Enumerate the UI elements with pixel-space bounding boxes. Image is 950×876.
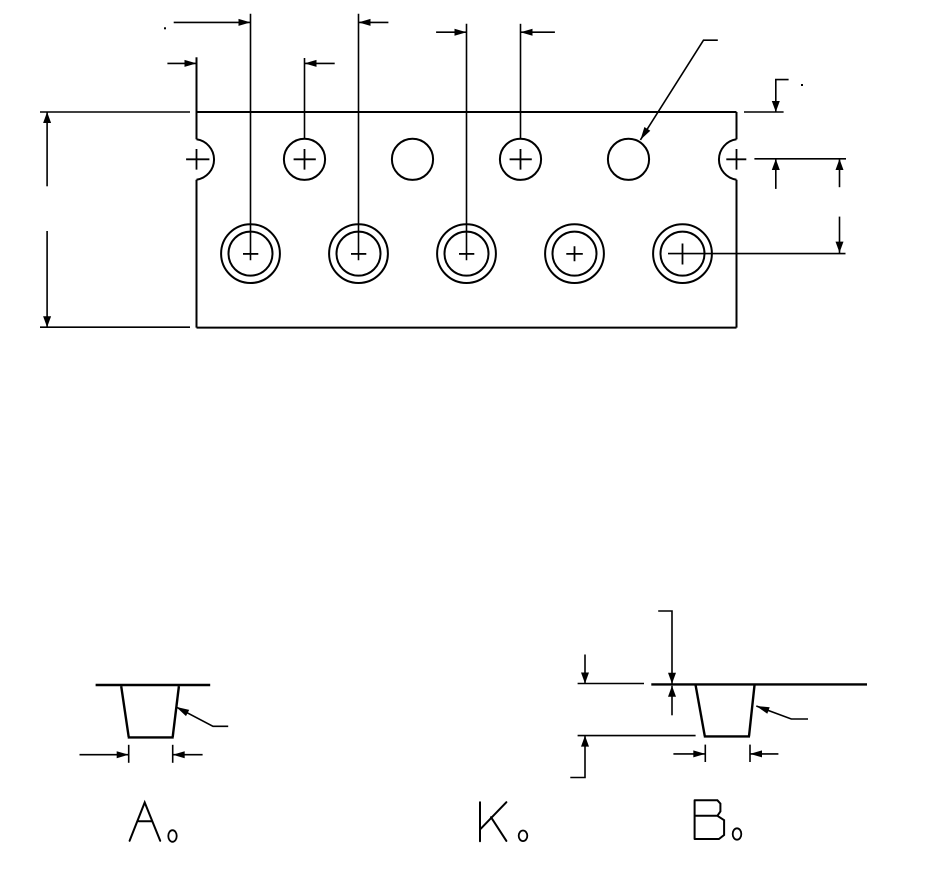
detail B surface extension left <box>578 683 644 685</box>
plate right edge upper <box>736 112 738 139</box>
hole Q2 inner circle <box>337 232 381 276</box>
detail B width dim left line <box>673 753 705 755</box>
detail B width extension right <box>749 745 751 762</box>
dimension Q1-Q2 pitch right line <box>359 21 389 23</box>
detail B depth dim upper line <box>584 655 586 684</box>
label A degree circle <box>168 830 176 842</box>
extension line hole P4 <box>520 24 522 139</box>
arrowhead leader P5 <box>640 127 650 140</box>
hole Q5 outer circle <box>653 224 712 283</box>
extension line plate top right <box>744 111 784 113</box>
dimension row1-to-row2 lower line <box>839 217 841 254</box>
arrowhead dim Q3-P4 right <box>521 29 533 36</box>
detail A width extension left <box>128 745 130 763</box>
extension line row1 centerline right <box>754 158 846 160</box>
dimension P1-P2 pitch right line <box>305 62 335 64</box>
detail B surface line <box>651 683 867 685</box>
arrowhead dim P1-P2 left <box>185 60 197 67</box>
arrowhead detail B leader <box>756 706 769 714</box>
detail A leader line <box>176 707 228 726</box>
extension line hole Q3 <box>466 24 468 260</box>
crosshair hole P4 <box>510 149 532 170</box>
hole P2 circle <box>284 139 325 180</box>
dimension plate height upper line <box>46 112 48 186</box>
detail A surface line <box>96 684 211 686</box>
label letter A <box>130 803 161 841</box>
label B degree circle <box>733 828 742 839</box>
dimension Q1-Q2 pitch left line <box>174 21 251 23</box>
arrowhead detail A width left <box>117 751 129 758</box>
extension line row2 centerline right <box>668 253 846 255</box>
hole Q1 outer circle <box>221 224 280 283</box>
arrowhead dim P1-P2 right <box>305 60 317 67</box>
detail B K dim upper hook <box>658 611 672 684</box>
crosshair hole Q3 <box>459 253 474 255</box>
crosshair hole P6 <box>726 149 746 170</box>
label letter B <box>695 800 725 839</box>
detail B countersink left wall <box>696 685 705 736</box>
arrowhead edge-to-row1 down <box>772 101 780 112</box>
dimension Q3-P4 offset left line <box>436 31 466 33</box>
arrowhead dim Q1-Q2 left <box>239 19 251 26</box>
hole P4 circle <box>500 139 541 180</box>
detail B width extension left <box>704 745 706 762</box>
label letter K <box>480 802 506 841</box>
detail B depth dim lower line with hook <box>570 736 585 778</box>
arrowhead detail B width right <box>750 750 762 757</box>
hole P1 half (notch in left edge) <box>197 139 215 179</box>
label K degree circle <box>519 831 528 842</box>
plate right edge lower <box>736 180 738 328</box>
detail A width dim left line <box>80 754 129 756</box>
arrowhead detail B K down <box>668 673 676 684</box>
extension line plate bottom left <box>40 326 190 328</box>
arrowhead plate height up <box>43 112 51 123</box>
detail A width dim right line <box>173 754 203 756</box>
extension line hole Q2 <box>358 14 360 260</box>
dimension Q3-P4 offset right line <box>521 31 555 33</box>
dimension plate height lower line <box>46 231 48 327</box>
detail A countersink bottom <box>128 736 174 738</box>
crosshair hole P2 <box>294 149 316 170</box>
arrowhead detail B depth up <box>581 736 589 747</box>
dimension edge-to-row1 upper hook <box>776 80 789 112</box>
stray dot 1 <box>164 27 166 29</box>
hole P6 half (notch in right edge) <box>719 139 737 179</box>
crosshair hole P1 <box>186 149 209 170</box>
arrowhead detail A width right <box>173 751 185 758</box>
extension line hole P2 <box>304 58 306 139</box>
crosshair hole Q5 vertical <box>682 244 684 265</box>
detail A countersink left wall <box>121 686 129 737</box>
plate bottom edge <box>197 327 737 329</box>
hole P5 circle <box>608 139 649 180</box>
arrowhead dim Q1-Q2 right <box>359 19 371 26</box>
plate left edge (with extension above) <box>196 57 198 139</box>
crosshair hole Q1 <box>243 253 258 255</box>
crosshair hole Q2 <box>351 253 366 255</box>
arrowhead row1-row2 up <box>836 159 844 170</box>
arrowhead detail B K up <box>668 686 676 697</box>
extension line hole Q1 <box>250 14 252 260</box>
hole Q3 outer circle <box>437 224 496 283</box>
dimension row1-to-row2 upper line <box>839 159 841 187</box>
hole Q1 inner circle <box>229 232 273 276</box>
detail B bottom plane extension <box>578 735 696 737</box>
plate left edge lower <box>196 180 198 328</box>
detail B width dim right line <box>750 753 778 755</box>
plate top edge <box>197 111 737 113</box>
arrowhead dim Q3-P4 left <box>455 29 467 36</box>
detail A width extension right <box>172 745 174 763</box>
crosshair hole Q4 <box>566 246 583 261</box>
hole Q3 inner circle <box>445 232 489 276</box>
arrowhead detail A leader <box>176 707 189 716</box>
detail B leader line <box>756 706 808 719</box>
detail B countersink bottom <box>704 735 750 737</box>
detail A countersink right wall <box>173 686 179 737</box>
hole Q2 outer circle <box>329 224 388 283</box>
hole Q4 inner circle <box>553 232 597 276</box>
stray dot 2 <box>801 84 803 86</box>
arrowhead detail B width left <box>693 750 705 757</box>
arrowhead plate height down <box>43 316 51 327</box>
arrowhead row1-row2 down <box>836 242 844 253</box>
extension line plate top left <box>40 111 190 113</box>
arrowhead edge-to-row1 up <box>772 159 780 170</box>
hole P3 circle <box>392 139 433 180</box>
leader to hole P5 <box>640 40 717 140</box>
hole Q4 outer circle <box>545 224 604 283</box>
detail B countersink right wall <box>749 685 755 736</box>
arrowhead detail B depth down <box>581 673 589 684</box>
detail B K dim lower line <box>671 686 673 716</box>
dimension P1-P2 pitch left line <box>167 62 196 64</box>
dimension edge-to-row1 lower line <box>775 159 777 189</box>
hole Q5 inner circle <box>661 232 705 276</box>
